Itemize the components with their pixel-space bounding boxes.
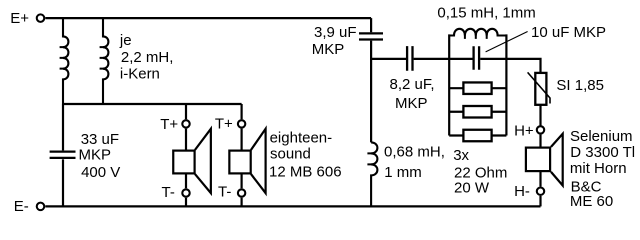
svg-text:Selenium: Selenium xyxy=(570,128,633,145)
wire fuse to H+ xyxy=(539,105,541,126)
wire box to H- xyxy=(539,171,541,187)
svg-text:je: je xyxy=(119,32,132,49)
capacitor 33 uF plates xyxy=(50,152,76,158)
terminal T+ speaker2 xyxy=(238,120,245,127)
capacitor 3,9 uF plates xyxy=(359,33,383,39)
svg-text:mit Horn: mit Horn xyxy=(570,160,627,177)
inductor 0,68 winding ticks xyxy=(367,153,373,164)
svg-text:MKP: MKP xyxy=(79,147,112,164)
speaker1 box xyxy=(173,151,194,174)
svg-text:ME 60: ME 60 xyxy=(570,193,613,210)
svg-text:10 uF MKP: 10 uF MKP xyxy=(531,24,606,41)
wire T+ drop speaker1 xyxy=(185,104,187,119)
wire 3,9uF down to coil 0,68 xyxy=(370,41,372,143)
inductor 2,2 mH #1 xyxy=(63,18,68,104)
speaker1 horn xyxy=(195,129,211,193)
capacitor 10 uF plates xyxy=(474,46,480,70)
svg-text:T-: T- xyxy=(218,183,231,200)
wire T+ to box speaker1 xyxy=(185,129,187,151)
svg-text:12 MB 606: 12 MB 606 xyxy=(269,163,342,180)
wire 10uF to fuse corner xyxy=(480,59,540,72)
inductor 0,15 mH horizontal xyxy=(449,29,506,36)
terminal H+ xyxy=(537,126,544,133)
svg-text:MKP: MKP xyxy=(395,95,428,112)
svg-text:E-: E- xyxy=(14,198,29,215)
wire 8,2uF to 10uF cap xyxy=(414,58,473,60)
speaker2 horn xyxy=(251,129,266,193)
svg-text:eighteen-: eighteen- xyxy=(270,130,333,147)
svg-text:T+: T+ xyxy=(215,116,233,133)
svg-text:2,2 mH,: 2,2 mH, xyxy=(121,49,174,66)
svg-text:0,68 mH,: 0,68 mH, xyxy=(384,144,445,161)
fuse SI 1,85 body xyxy=(535,73,546,105)
resistor 22 Ohm R3 xyxy=(463,130,491,142)
wire T- to rail speaker2 xyxy=(241,198,243,207)
inductor 0,15 winding ticks xyxy=(465,34,487,39)
resistor 22 Ohm R1 leads xyxy=(449,87,506,89)
pointer line 10uF label xyxy=(486,32,528,52)
wire H- to bottom rail xyxy=(539,196,541,207)
wire top rail E+ xyxy=(45,17,371,19)
svg-text:3,9 uF: 3,9 uF xyxy=(314,24,357,41)
wire T+ drop speaker2 xyxy=(241,104,243,119)
wire T- to rail speaker1 xyxy=(185,198,187,207)
svg-text:MKP: MKP xyxy=(312,41,345,58)
wire coil1 down to 33uF xyxy=(62,104,64,150)
inductor 0,68 mH xyxy=(371,142,377,206)
svg-text:0,15 mH, 1mm: 0,15 mH, 1mm xyxy=(437,4,535,21)
resistor 22 Ohm R2 xyxy=(463,106,491,118)
terminal T- speaker2 xyxy=(238,189,245,196)
horn speaker cone xyxy=(551,134,563,186)
terminal H- xyxy=(537,188,544,195)
svg-text:8,2 uF,: 8,2 uF, xyxy=(390,76,435,93)
terminal T+ speaker1 xyxy=(182,120,189,127)
inductor #1 winding ticks xyxy=(60,47,65,69)
parallel block left rail xyxy=(448,34,450,135)
terminal T- speaker1 xyxy=(182,189,189,196)
svg-text:H-: H- xyxy=(514,183,530,200)
wire row to 8,2uF xyxy=(371,58,406,60)
svg-text:i-Kern: i-Kern xyxy=(120,65,160,82)
resistor 22 Ohm R2 leads xyxy=(449,111,506,113)
speaker2 box xyxy=(229,151,250,174)
inductor #2 winding ticks xyxy=(100,47,105,69)
svg-text:33 uF: 33 uF xyxy=(81,131,119,148)
parallel block right rail xyxy=(505,34,507,135)
fuse SI 1,85 diagonal with foot xyxy=(528,72,550,103)
wire 33uF to bottom rail xyxy=(62,159,64,206)
svg-text:SI 1,85: SI 1,85 xyxy=(556,77,604,94)
wire box to T- speaker1 xyxy=(185,173,187,188)
wire 3,9uF branch top xyxy=(370,18,372,32)
wire node row mid-left xyxy=(63,103,242,105)
inductor 2,2 mH #2 xyxy=(103,18,108,104)
svg-text:3x: 3x xyxy=(453,147,469,164)
terminal E+ xyxy=(37,14,45,22)
svg-text:20 W: 20 W xyxy=(454,180,490,197)
svg-text:400 V: 400 V xyxy=(81,164,120,181)
wire T+ to box speaker2 xyxy=(241,129,243,151)
wire H+ to horn box xyxy=(539,135,541,148)
resistor 22 Ohm R1 xyxy=(463,82,491,94)
svg-text:T+: T+ xyxy=(160,116,178,133)
horn speaker box xyxy=(526,148,550,172)
svg-text:T-: T- xyxy=(162,184,175,201)
svg-text:D 3300 Tl: D 3300 Tl xyxy=(570,144,635,161)
svg-text:E+: E+ xyxy=(10,10,29,27)
svg-text:H+: H+ xyxy=(514,123,534,140)
wire bottom rail E- xyxy=(45,205,540,207)
terminal E- xyxy=(37,203,45,211)
svg-text:sound: sound xyxy=(270,146,311,163)
capacitor 8,2 uF plates xyxy=(407,46,412,71)
wire box to T- speaker2 xyxy=(241,173,243,188)
resistor 22 Ohm R3 leads xyxy=(449,134,506,136)
svg-text:1 mm: 1 mm xyxy=(384,164,422,181)
